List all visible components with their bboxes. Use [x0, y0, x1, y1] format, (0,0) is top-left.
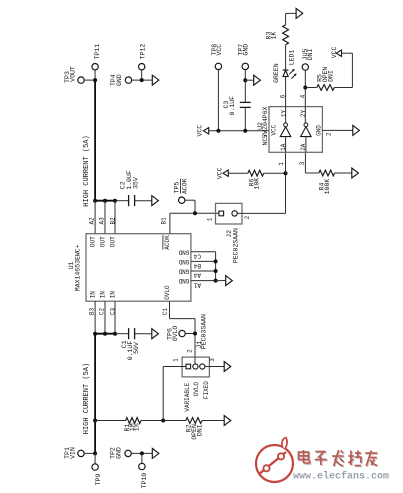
wire IN stub C3	[114, 301, 116, 334]
svg-text:LED1: LED1	[289, 50, 296, 66]
watermark elecfans logo	[256, 438, 293, 483]
svg-text:IN: IN	[99, 291, 106, 299]
svg-text:PEC03SAAN: PEC03SAAN	[201, 314, 208, 349]
svg-text:TP12: TP12	[140, 44, 147, 60]
svg-text:0.1UF: 0.1UF	[229, 96, 236, 116]
svg-text:OVLO: OVLO	[193, 382, 200, 397]
svg-text:B3: B3	[88, 308, 95, 316]
svg-text:100K: 100K	[324, 179, 331, 195]
svg-text:MAX14653EWC+: MAX14653EWC+	[75, 244, 82, 291]
wire TP3 to VOUT bus	[84, 79, 95, 81]
wire J1 pin3 to ground	[205, 366, 224, 368]
wire R4 to ground	[335, 172, 352, 174]
wire J1 pin1 left	[163, 366, 186, 368]
svg-text:ACOK: ACOK	[182, 178, 189, 194]
svg-text:VCC: VCC	[216, 44, 223, 56]
wire TP12 stem	[141, 70, 143, 80]
wire R1 to node	[141, 420, 163, 422]
junction C3 VCC	[243, 129, 247, 133]
wire U2 pin3 stub	[304, 152, 306, 173]
wire OVLO jog horizontal	[170, 318, 196, 320]
wire TP7 ground spur	[245, 79, 253, 81]
svg-text:HIGH CURRENT (5A): HIGH CURRENT (5A)	[83, 363, 91, 434]
resistor R3	[283, 25, 289, 45]
wire TP10 stem	[141, 453, 143, 463]
resistor R1	[126, 418, 141, 424]
svg-text:OUT: OUT	[89, 236, 96, 247]
wire R2 to ground	[202, 420, 224, 422]
test point TP12	[139, 63, 145, 69]
junction OUT bus corner	[93, 199, 97, 203]
test point TP2	[125, 450, 131, 456]
svg-text:GND: GND	[178, 268, 189, 275]
J2 pin 2 round pad	[232, 211, 237, 216]
junction OVLO TP6	[193, 332, 197, 336]
wire U1 GND join	[215, 252, 217, 281]
connector J2 body	[216, 203, 243, 224]
ground R4	[352, 168, 359, 178]
wire TP4 to ground	[132, 79, 153, 81]
svg-text:VCC: VCC	[196, 125, 203, 137]
svg-text:C1: C1	[162, 308, 169, 316]
svg-text:ACOK: ACOK	[164, 235, 171, 250]
junction IN pin C3	[113, 332, 117, 336]
junction node 2Y	[303, 86, 307, 90]
wire 2A input	[305, 137, 307, 153]
svg-text:GND: GND	[178, 248, 189, 255]
wire C3 to VCC rail	[244, 107, 246, 130]
svg-text:2: 2	[325, 132, 332, 136]
svg-text:1%: 1%	[133, 423, 140, 431]
svg-text:GND: GND	[178, 258, 189, 265]
wire R5 riser	[351, 53, 353, 87]
test point TP7	[242, 63, 248, 69]
wire node to R2	[163, 420, 186, 422]
junction TP12 node	[140, 78, 144, 82]
wire TP5 jog vertical	[194, 200, 196, 213]
resistor R5	[317, 85, 334, 91]
svg-text:A4: A4	[193, 272, 201, 279]
svg-text:A3: A3	[98, 217, 105, 225]
wire R3 up	[285, 13, 287, 24]
svg-text:NC7WZ04P6X: NC7WZ04P6X	[262, 106, 269, 145]
svg-text:C2: C2	[98, 308, 105, 316]
wire IN bus to C1	[116, 333, 129, 335]
svg-text:A1: A1	[193, 281, 201, 288]
svg-text:50V: 50V	[133, 342, 140, 354]
junction VOUT node	[93, 78, 97, 82]
test point TP1	[78, 450, 84, 456]
junction OUT pin B2	[113, 199, 117, 203]
svg-text:VOUT: VOUT	[70, 66, 77, 82]
junction VIN R1	[93, 419, 97, 423]
test point TP8	[215, 63, 221, 69]
wire ACOK horizontal	[170, 212, 219, 214]
svg-text:GND: GND	[243, 44, 250, 56]
wire VIN bus vertical	[94, 334, 96, 454]
resistor R2	[186, 418, 202, 424]
wire LED to R3	[285, 45, 287, 70]
svg-text:OVLO: OVLO	[164, 285, 171, 300]
ground C2	[152, 196, 159, 206]
ground J1 pin3	[224, 362, 231, 372]
svg-text:C3: C3	[109, 308, 116, 316]
junction OUT pin A3	[103, 199, 107, 203]
inverter gate 1A/1Y	[280, 123, 291, 137]
junction node 1A	[284, 171, 288, 175]
power VCC R6	[223, 170, 228, 176]
test point TP6	[179, 330, 185, 336]
wire U1 GND stub 2	[191, 260, 216, 262]
svg-text:OUT: OUT	[109, 236, 116, 247]
wire TP7 drop	[244, 70, 246, 103]
wire U1 GND stub 1	[191, 251, 216, 253]
wire U1 GND stub 3	[191, 270, 216, 272]
power VCC rail	[203, 128, 208, 134]
svg-text:VIN: VIN	[70, 447, 77, 459]
test point TP5	[179, 197, 185, 203]
svg-text:A2: A2	[88, 217, 95, 225]
junction TP10 node	[140, 451, 144, 455]
ground R3	[296, 8, 303, 18]
svg-text:VCC: VCC	[271, 124, 278, 135]
wire VIN to R1	[95, 420, 126, 422]
wire J2 pin2 to U2 1A	[237, 212, 285, 214]
svg-text:GND: GND	[116, 74, 123, 86]
junction ACOK TP5	[193, 211, 197, 215]
junction GND stub 2	[214, 259, 218, 263]
wire R3 corner	[286, 12, 297, 14]
inverter U2 NC7WZ04P6X body	[269, 107, 322, 153]
LED LED1	[283, 69, 297, 79]
test point TP3	[78, 77, 84, 83]
junction R1 R2 J1	[161, 419, 165, 423]
wire TP6 to OVLO	[185, 333, 195, 335]
connector J1 body	[182, 357, 209, 377]
svg-text:FIXED: FIXED	[203, 381, 210, 399]
svg-text:3: 3	[299, 161, 306, 165]
svg-text:2: 2	[244, 215, 251, 219]
wire U1 GND to ground	[216, 280, 226, 282]
wire OUT bus horizontal	[95, 200, 116, 202]
svg-text:1Y: 1Y	[280, 110, 287, 118]
wire OUT stub A3	[104, 201, 106, 234]
resistor R4	[319, 170, 335, 176]
wire C1 to ground	[135, 333, 152, 335]
svg-text:VARIABLE: VARIABLE	[184, 382, 191, 411]
svg-text:1: 1	[207, 217, 214, 221]
wire TP1 to bus	[84, 452, 95, 454]
wire OUT stub B2	[114, 201, 116, 234]
wire IN bus horizontal	[95, 333, 116, 335]
test point TP9	[92, 464, 98, 470]
capacitor C3	[240, 102, 251, 107]
junction IN bus corner	[93, 332, 97, 336]
svg-text:DNI: DNI	[197, 424, 204, 436]
junction GND stub 4	[214, 279, 218, 283]
svg-text:VCC: VCC	[331, 46, 338, 58]
svg-text:10K: 10K	[254, 178, 261, 190]
ground TP4	[152, 75, 159, 85]
wire 2Y output to JU5	[304, 70, 306, 123]
svg-text:2Y: 2Y	[300, 110, 307, 118]
wire OVLO drop to J1	[194, 319, 196, 364]
svg-text:C4: C4	[193, 253, 201, 260]
wire OUT bus to C2	[116, 200, 129, 202]
J1 pin 3 round pad	[200, 364, 205, 369]
svg-text:GND: GND	[178, 277, 189, 284]
jumper JU5 pad	[302, 64, 308, 70]
ground C1	[152, 329, 159, 339]
wire IN stub B3	[94, 301, 96, 334]
test point TP10	[139, 463, 145, 469]
wire TP11 stem	[94, 70, 96, 80]
wire TP9 stem	[94, 453, 96, 463]
wire R5 right	[334, 87, 352, 89]
wire 1Y output to LED	[285, 77, 287, 123]
wire R6 to node	[264, 172, 286, 174]
svg-text:TP11: TP11	[94, 44, 101, 60]
svg-text:B4: B4	[193, 262, 201, 269]
junction VIN node	[93, 451, 97, 455]
wire VCC rail	[209, 130, 269, 132]
wire U2 pin2 to ground	[322, 129, 352, 131]
junction IN pin C2	[103, 332, 107, 336]
wire OVLO stub	[169, 301, 171, 318]
wire 1A riser	[285, 173, 287, 213]
svg-text:GREEN: GREEN	[273, 63, 280, 83]
wire C2 to ground	[135, 200, 152, 202]
ground U1	[226, 276, 233, 286]
svg-text:2: 2	[187, 349, 194, 353]
wire VCC to R6	[228, 172, 248, 174]
junction TP8 VCC	[216, 129, 220, 133]
svg-text:B2: B2	[109, 217, 116, 225]
svg-text:GND: GND	[116, 447, 123, 459]
J2 pin 1 square pad	[219, 211, 224, 216]
svg-text:DNI: DNI	[328, 70, 335, 82]
resistor R6	[248, 170, 264, 176]
wire U1 GND stub 4	[191, 280, 216, 282]
wire 1A input	[285, 137, 287, 153]
svg-text:5: 5	[262, 134, 269, 138]
svg-text:1: 1	[173, 358, 180, 362]
TP5 ACOK overline	[179, 179, 181, 194]
svg-text:TP10: TP10	[141, 473, 148, 489]
svg-text:HIGH CURRENT (5A): HIGH CURRENT (5A)	[83, 135, 91, 206]
wire R5 top	[342, 52, 353, 54]
svg-text:IN: IN	[109, 291, 116, 299]
test point TP11	[92, 63, 98, 69]
wire TP2 to ground	[131, 452, 152, 454]
inverter gate 2A/2Y	[301, 123, 312, 137]
wire IN stub C2	[104, 301, 106, 334]
J1 pin 2 round pad	[193, 364, 198, 369]
wire ACOK stub	[169, 213, 171, 233]
ground U2	[353, 125, 360, 135]
junction GND stub 3	[214, 269, 218, 273]
wire U2 pin1 stub	[285, 152, 287, 173]
capacitor C2	[129, 195, 135, 206]
ground TP7	[254, 75, 261, 85]
svg-text:TP9: TP9	[95, 473, 102, 485]
test point TP4	[125, 77, 131, 83]
ground R2	[224, 416, 231, 426]
U1 ACOK overline	[162, 235, 164, 249]
wire TP5 jog horizontal	[185, 199, 195, 201]
svg-text:35V: 35V	[132, 177, 139, 189]
svg-text:OUT: OUT	[99, 236, 106, 247]
J1 pin 1 square pad	[186, 364, 191, 369]
wire node to R5	[305, 87, 317, 89]
ground TP2	[152, 448, 159, 458]
junction TP7 GND	[243, 78, 247, 82]
svg-text:GND: GND	[316, 125, 323, 136]
svg-text:3: 3	[209, 358, 216, 362]
svg-text:OVLO: OVLO	[172, 326, 179, 342]
svg-text:PEC02SAAN: PEC02SAAN	[233, 228, 240, 263]
wire J1 pin1 drop	[162, 367, 164, 421]
svg-text:DNI: DNI	[307, 48, 314, 60]
capacitor C1	[129, 328, 135, 339]
svg-text:www.elecfans.com: www.elecfans.com	[293, 471, 389, 483]
svg-text:IN: IN	[89, 291, 96, 299]
wire pin3 to R4	[305, 172, 318, 174]
wire VOUT bus vertical	[94, 80, 96, 201]
svg-text:B1: B1	[161, 217, 168, 225]
watermark text dianzi fashaoyou	[300, 451, 311, 464]
svg-text:TP5: TP5	[173, 182, 180, 194]
power VCC R5	[336, 50, 341, 56]
wire OUT stub A2	[94, 201, 96, 234]
wire TP8 drop	[217, 70, 219, 131]
op-amp U1 MAX14653EWC+ body	[86, 234, 191, 302]
svg-text:1: 1	[278, 162, 285, 166]
svg-text:1K: 1K	[270, 32, 277, 40]
